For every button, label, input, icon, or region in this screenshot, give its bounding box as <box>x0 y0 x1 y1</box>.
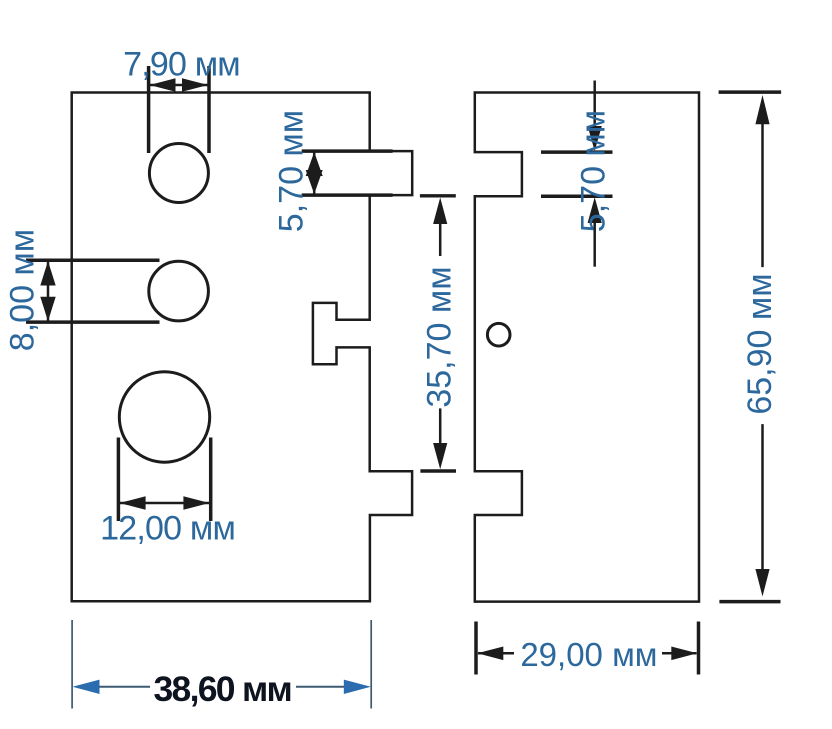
svg-text:7,90 мм: 7,90 мм <box>123 45 240 83</box>
dim 65.90 extension line top <box>719 90 782 94</box>
dim 38.60 extension line left <box>71 620 73 709</box>
dim 5.70 right arrow down <box>588 126 602 151</box>
dim 29.00 extension line right <box>697 622 701 675</box>
dim 29.00 arrow left <box>477 647 503 661</box>
dim 7.90 arrow right <box>182 78 208 92</box>
dim 5.70 left arrow up <box>306 152 323 176</box>
dim 35.70 dimension line upper <box>439 223 442 256</box>
dim 29.00 extension line left <box>474 622 478 675</box>
hole D12.00 bottom <box>119 372 209 462</box>
dim 65.90 dimension line lower <box>761 424 764 570</box>
dim 8.00 dimension line <box>47 261 50 322</box>
dim 7.90 arrow left <box>150 78 176 92</box>
dim 29.00 arrow right <box>671 647 697 661</box>
svg-text:12,00 мм: 12,00 мм <box>100 510 235 548</box>
dim 8.00 extension line bottom <box>26 320 160 324</box>
left plate outline <box>72 93 413 602</box>
dim 65.90 extension line bottom <box>719 600 780 604</box>
dim 12.00 extension line left <box>117 438 121 522</box>
dim 5.70 left dimension line <box>313 152 316 195</box>
dim 38.60 dimension line right <box>296 686 348 688</box>
dim 12.00 extension line right <box>209 438 213 522</box>
svg-text:5,70 мм: 5,70 мм <box>273 110 311 232</box>
dim 38.60 arrow right <box>344 680 371 694</box>
small hole right plate <box>487 323 510 346</box>
dim 38.60 extension line right <box>370 620 372 709</box>
dim 5.70 right leader line top <box>593 81 596 128</box>
dim 5.70 right extension line top <box>541 150 613 154</box>
dim 65.90 dimension line upper <box>761 123 764 267</box>
dim 35.70 dimension line lower <box>439 408 442 444</box>
dim 29.00 dimension line left <box>478 652 514 655</box>
svg-text:8,00 мм: 8,00 мм <box>4 229 42 351</box>
dim 5.70 right leader line bottom <box>593 222 596 267</box>
dim 29.00 dimension line right <box>662 652 697 655</box>
dim 65.90 arrow up <box>755 95 769 124</box>
dim 8.00 extension line top <box>26 259 160 263</box>
hole D7.90 top <box>149 144 208 203</box>
right plate outline <box>475 93 699 602</box>
dim 35.70 extension line bottom <box>420 469 456 472</box>
dim 8.00 arrow down <box>40 297 55 322</box>
dim 5.70 right arrow up <box>588 197 602 223</box>
dim 12.00 dimension line <box>120 502 209 505</box>
dim 8.00 arrow up <box>40 261 55 286</box>
dim 35.70 arrow down <box>433 443 447 469</box>
svg-text:5,70 мм: 5,70 мм <box>575 110 613 232</box>
dim 7.90 dimension line <box>149 84 209 87</box>
svg-text:65,90 мм: 65,90 мм <box>741 273 779 414</box>
dim 12.00 arrow right <box>183 496 209 510</box>
dim 38.60 dimension line left <box>96 686 150 688</box>
svg-text:38,60 мм: 38,60 мм <box>153 669 291 709</box>
dim 65.90 arrow down <box>755 569 769 597</box>
dim 5.70 left arrow down <box>306 170 323 194</box>
dim 7.90 extension line right <box>207 66 211 153</box>
dim 38.60 arrow left <box>73 680 100 694</box>
svg-text:29,00 мм: 29,00 мм <box>520 636 657 673</box>
dim 5.70 left extension line top <box>302 149 393 153</box>
dim 12.00 arrow left <box>120 496 146 510</box>
dim 35.70 extension line top <box>420 194 456 197</box>
dim 5.70 right extension line bottom <box>541 195 613 199</box>
dim 35.70 arrow up <box>433 198 447 225</box>
dim 5.70 left extension line bottom <box>302 193 393 197</box>
svg-text:35,70 мм: 35,70 мм <box>421 266 459 407</box>
dim 7.90 extension line left <box>147 66 151 153</box>
hole D8.00 middle <box>149 261 209 321</box>
